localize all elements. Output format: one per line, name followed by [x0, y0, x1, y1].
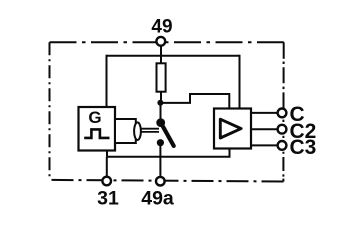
wire: output stage to terminal C: [251, 112, 278, 114]
wire: G box bottom stub to ground line: [106, 151, 108, 157]
wire: junction node down to switch pivot: [160, 103, 162, 123]
svg-text:31: 31: [97, 187, 119, 209]
switch fixed contact: [157, 139, 164, 146]
solenoid plunger end cap (ellipse): [134, 122, 141, 140]
pulse generator U1 box (G): [79, 107, 116, 151]
wire: resistor bottom to junction node: [160, 92, 162, 103]
pulse waveform symbol inside G box: [84, 129, 109, 138]
wire: terminal 49 down through supply bus to resistor: [160, 45, 162, 64]
wire: junction node to output stage input (right, up, right, down): [160, 94, 229, 109]
switch lever (moving contact arm): [162, 125, 174, 146]
actuator push rod (double line): [141, 129, 159, 132]
wire: right drop from supply bus to output stage top: [239, 55, 241, 109]
svg-text:C3: C3: [290, 136, 317, 159]
relay housing dash-dot enclosure: left border: [49, 42, 51, 180]
terminal 49 (circle): [156, 37, 165, 46]
svg-text:G: G: [88, 108, 101, 127]
relay housing dash-dot enclosure: right border: [282, 42, 284, 181]
terminal 31 (circle): [102, 177, 111, 186]
wire: ground line from G box / terminal 31 to output stage bottom: [107, 149, 230, 157]
output stage U2 box (amplifier): [214, 109, 251, 149]
wire: output stage to terminal C3: [251, 144, 278, 146]
amplifier triangle symbol: [220, 119, 241, 138]
wire: ground line down to terminal 31: [106, 157, 108, 177]
terminal C (circle): [278, 109, 287, 118]
relay housing dash-dot enclosure: bottom border: [50, 180, 284, 182]
wire: output stage to terminal C2: [251, 128, 278, 130]
wire: supply bus from terminal 49 (horizontal, feeds G box and output stage): [107, 55, 240, 57]
junction node: resistor / switch / output-stage signal: [157, 100, 163, 106]
wire: fixed contact down to terminal 49a: [159, 143, 161, 177]
terminal C3 (circle): [278, 141, 287, 150]
svg-text:49a: 49a: [141, 187, 174, 209]
relay housing dash-dot enclosure: top border: [50, 41, 284, 43]
resistor (timing resistor, vertical): [157, 63, 166, 91]
solenoid armature (actuator body on right of G box): [115, 119, 136, 143]
wire: left drop from supply bus to G box top: [106, 55, 108, 107]
switch pivot (moving contact): [156, 118, 165, 127]
terminal 49a (circle): [156, 177, 165, 186]
terminal C2 (circle): [278, 125, 287, 134]
svg-text:49: 49: [151, 16, 172, 37]
